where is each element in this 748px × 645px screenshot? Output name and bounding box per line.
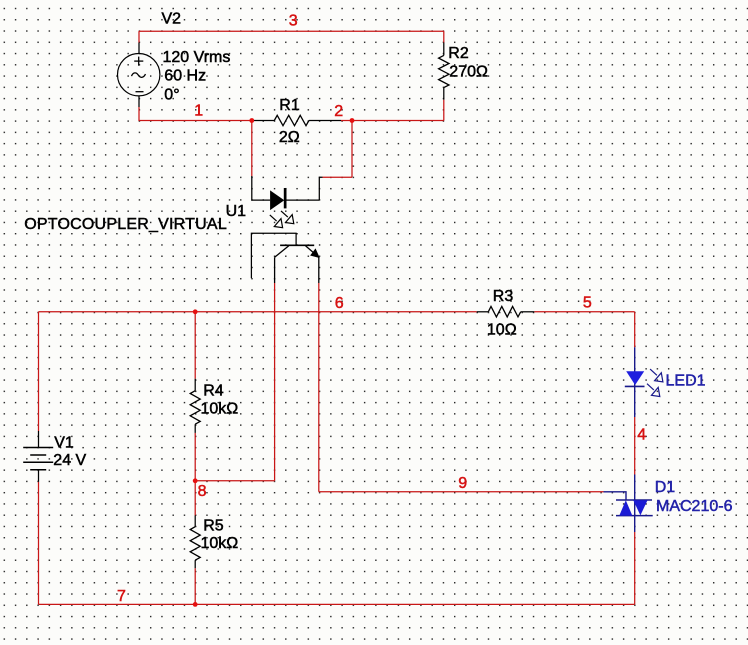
svg-text:10kΩ: 10kΩ: [201, 535, 239, 552]
svg-text:R3: R3: [493, 288, 514, 305]
svg-text:4: 4: [637, 427, 646, 444]
svg-text:0°: 0°: [164, 86, 179, 103]
svg-text:R4: R4: [203, 382, 224, 399]
svg-text:V1: V1: [54, 434, 74, 451]
svg-text:MAC210-6: MAC210-6: [656, 498, 733, 515]
svg-text:24 V: 24 V: [53, 452, 86, 469]
svg-text:6: 6: [335, 295, 344, 312]
svg-text:8: 8: [198, 483, 207, 500]
svg-text:10Ω: 10Ω: [487, 322, 517, 339]
svg-text:10kΩ: 10kΩ: [201, 400, 239, 417]
svg-text:270Ω: 270Ω: [449, 63, 488, 80]
svg-text:9: 9: [458, 475, 467, 492]
svg-text:D1: D1: [655, 479, 676, 496]
svg-text:3: 3: [289, 12, 298, 29]
svg-text:1: 1: [194, 103, 203, 120]
svg-text:5: 5: [583, 294, 592, 311]
svg-text:U1: U1: [226, 203, 247, 220]
svg-text:R5: R5: [203, 518, 224, 535]
svg-text:120 Vrms: 120 Vrms: [163, 49, 231, 66]
svg-text:7: 7: [117, 588, 126, 605]
svg-text:V2: V2: [162, 11, 182, 28]
svg-text:OPTOCOUPLER_VIRTUAL: OPTOCOUPLER_VIRTUAL: [24, 216, 227, 233]
svg-text:R2: R2: [448, 45, 469, 62]
svg-text:60 Hz: 60 Hz: [164, 67, 206, 84]
svg-text:2Ω: 2Ω: [279, 129, 300, 146]
svg-text:R1: R1: [279, 97, 300, 114]
svg-text:LED1: LED1: [666, 372, 706, 389]
svg-text:2: 2: [334, 103, 343, 120]
